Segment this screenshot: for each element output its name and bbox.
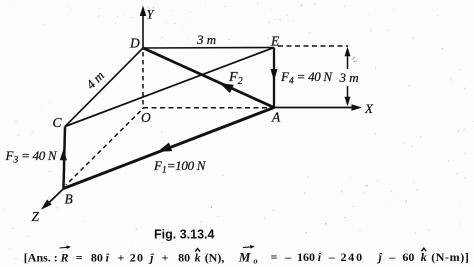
dashed extension E to dimension [278,45,348,47]
smudge mark [353,57,357,62]
svg-text:[Ans. :R=80î+20ĵ+80k(N),Mo=–16: [Ans. :R=80î+20ĵ+80k(N),Mo=–160î–240ĵ–60… [24,250,470,266]
svg-text:B: B [65,192,73,207]
dashed wire O-A [143,107,271,109]
dashed wire D-O [142,52,144,109]
wire D-C left slant edge [65,48,143,127]
dimension 3 m vertical double arrow [345,47,351,107]
svg-text:X: X [364,101,374,116]
svg-text:Z: Z [32,209,40,224]
svg-text:C: C [53,115,63,130]
svg-text:3 m: 3 m [339,70,359,85]
Y axis [140,6,147,49]
svg-text:A: A [271,110,281,125]
vector arrow over R [60,245,72,249]
Z axis [41,189,64,210]
X axis [274,104,362,111]
svg-text:3 m: 3 m [196,32,216,47]
force F1 member A-B [64,108,275,189]
svg-text:F4 = 40 N: F4 = 40 N [280,69,333,87]
wire D-E top edge [143,47,274,50]
force F3 member C-B [60,127,67,189]
dashed wire O-B [66,111,141,185]
vector arrow over M [243,245,255,249]
hat over k (second) [421,248,426,251]
force F2 member A-D [143,48,274,108]
svg-text:Fig. 3.13.4: Fig. 3.13.4 [154,228,214,242]
svg-text:D: D [129,36,140,51]
wire C-E diagonal [65,48,274,127]
answer line [24,248,470,266]
force F4 member E-A [270,48,277,108]
hat over k (first) [195,249,200,252]
svg-text:F3 = 40 N: F3 = 40 N [5,148,58,166]
svg-text:F1=100 N: F1=100 N [153,158,207,176]
